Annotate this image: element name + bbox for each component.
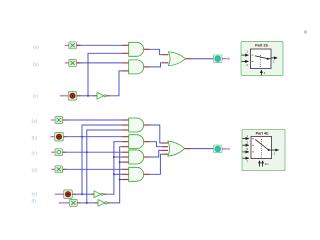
wire NOT1 to AND2.B — [110, 71, 122, 96]
logic state U2 — [69, 59, 77, 66]
svg-text:(d): (d) — [32, 168, 38, 173]
pin number P3 — [252, 158, 254, 160]
not gate NOT3 — [98, 200, 107, 207]
wire OR2 to probe LP2 — [191, 148, 214, 150]
junction node J7 — [119, 161, 121, 163]
svg-text:(b): (b) — [33, 62, 39, 67]
wire U8 to AND6.A — [67, 168, 123, 170]
pin U8 out — [63, 168, 67, 170]
wire NOT3 to AND4.C bus — [111, 147, 122, 203]
pin NOT1 in — [94, 95, 97, 97]
pin U2 out — [77, 62, 81, 64]
pin AND4.C — [122, 146, 129, 148]
watermark dot — [304, 30, 307, 33]
wire U2 to AND2.A — [77, 62, 123, 64]
logic state U5 — [55, 117, 63, 124]
logic state U10 — [70, 199, 78, 206]
pin AND2.A — [122, 62, 129, 64]
wire AND1 to OR1.A — [150, 49, 162, 54]
wire AND6 to OR2.D — [150, 154, 162, 174]
junction node J3 — [86, 202, 88, 204]
junction node J5 — [113, 156, 115, 158]
wiper pivot dot — [268, 149, 270, 151]
pin U9 out — [72, 193, 76, 195]
pin 1 wire — [243, 138, 249, 140]
pin 5 wire — [243, 151, 249, 153]
switch contacts dashed line — [259, 55, 261, 68]
logic probe LP1 — [214, 55, 223, 63]
pin NOT3 out — [107, 202, 110, 204]
junction node J4 — [113, 173, 115, 175]
svg-text:(a): (a) — [33, 44, 39, 49]
wire AND5 to OR2.C — [150, 150, 162, 157]
wire AND4 to OR2.B — [150, 142, 162, 147]
logic state U8 pin stub — [51, 168, 55, 170]
inner switch box U11 — [251, 137, 272, 159]
pin OR2.C — [162, 149, 168, 151]
button U9 — [64, 190, 73, 199]
button U9 pin stub — [55, 193, 64, 195]
wire J4 to AND6.B — [114, 173, 122, 175]
pin U1 out — [77, 44, 81, 46]
button U6 pin stub — [51, 136, 55, 138]
svg-text:Dn: Dn — [265, 162, 269, 166]
and gate AND5 — [129, 150, 144, 164]
pin AND3.A — [122, 119, 129, 121]
logic state U7 — [55, 149, 63, 156]
pin 8 wire bottom — [259, 163, 261, 167]
wire J7 to AND5.C — [120, 161, 122, 163]
pin 7 wire — [243, 157, 249, 159]
pin OR2.D — [162, 153, 168, 155]
pin AND5.B — [122, 156, 129, 158]
wire NOT2 to AND4.B bus — [107, 142, 122, 195]
wire J2 up to AND3.B — [82, 125, 122, 194]
junction node J2 — [81, 193, 83, 195]
button U3 — [68, 92, 77, 101]
pin U7 out — [63, 151, 67, 153]
logic state U2 pin stub — [65, 62, 69, 64]
and gate AND6 — [129, 167, 144, 181]
wire J3 up to AND3.C — [87, 130, 122, 203]
pin 8 arrow — [258, 160, 261, 163]
pin number P0 — [252, 138, 254, 140]
pin AND3 out — [144, 124, 150, 126]
pin OR2.B — [162, 146, 168, 148]
not gate NOT1 — [97, 92, 106, 99]
pin AND6.A — [122, 168, 129, 170]
pin AND2 out — [144, 66, 150, 68]
not gate NOT2 — [94, 191, 103, 198]
pin 9 arrow — [261, 160, 264, 163]
pin end dot LP2 — [227, 148, 230, 151]
pin 4 wire bottom — [260, 73, 262, 76]
pin OR1.A — [162, 54, 168, 56]
pin NOT1 out — [106, 95, 110, 97]
pin 4 arrow — [260, 70, 263, 74]
and gate AND3 — [129, 118, 144, 132]
switch wiper — [255, 56, 271, 59]
and gate AND1 — [129, 42, 144, 56]
svg-text:(c): (c) — [33, 94, 39, 99]
or gate OR1 — [168, 52, 185, 66]
wire J6 to AND6.C — [120, 179, 122, 181]
wire AND2 to OR1.B — [150, 63, 162, 67]
wire AND3 to OR2.A — [150, 125, 162, 143]
button U3 pin stub — [60, 95, 68, 97]
pin U5 out — [63, 119, 67, 121]
wire OR1 to probe LP1 — [192, 58, 214, 60]
switch wiper — [255, 140, 271, 151]
logic state U7 pin stub — [51, 151, 55, 153]
pin AND4.A — [122, 136, 129, 138]
wire U9 to NOT2 — [76, 193, 91, 195]
wire U7 to AND5.A — [67, 151, 123, 153]
pin NOT2 out — [103, 193, 106, 195]
wiper pivot dot — [267, 58, 269, 60]
pin end dot LP1 — [227, 57, 230, 60]
junction node J6 — [119, 179, 121, 181]
wire U3 to NOT1 — [81, 95, 94, 97]
pin U3 out — [77, 95, 81, 97]
svg-text:(b): (b) — [32, 135, 38, 140]
svg-text:Part 4b: Part 4b — [256, 132, 270, 136]
pin AND1.B — [122, 52, 129, 54]
or gate OR2 — [168, 141, 185, 156]
junction node J3c — [86, 151, 88, 153]
pin number D0 — [252, 54, 254, 56]
junction node J2b — [81, 136, 83, 138]
pin AND6 out — [144, 173, 150, 175]
subcircuit box Part 2b — [241, 42, 283, 76]
pin 2 wire — [272, 149, 279, 151]
logic state U8 — [55, 166, 63, 173]
pin AND4.B — [122, 141, 129, 143]
pin 2 wire — [271, 57, 277, 59]
pin AND2.B — [122, 70, 129, 72]
wire U6 to AND4.A — [67, 136, 122, 138]
pin AND1.A — [122, 44, 129, 46]
pin AND3.C — [122, 129, 129, 131]
logic state U1 — [69, 42, 77, 49]
pin NOT3 in — [95, 202, 98, 204]
svg-text:(f): (f) — [32, 199, 37, 204]
pin OR2 out — [185, 148, 191, 150]
wire U10 to NOT3 — [81, 202, 95, 204]
pin AND5.C — [122, 161, 129, 163]
pin 9 wire bottom — [262, 163, 264, 167]
pin number D1 — [252, 60, 254, 62]
pin U6 out — [63, 136, 67, 138]
pin AND6.B — [122, 173, 129, 175]
pin 1 wire — [242, 54, 249, 56]
svg-text:(c): (c) — [32, 151, 38, 156]
pin AND5 out — [144, 156, 150, 158]
wire J1 up to AND1.B — [88, 53, 122, 96]
pin number P2 — [252, 151, 254, 153]
pin AND4 out — [144, 141, 150, 143]
pin 3 wire — [243, 144, 249, 146]
logic state U10 pin stub — [59, 202, 69, 204]
pin OR1.B — [162, 62, 168, 64]
svg-text:(a): (a) — [32, 119, 38, 124]
button U6 — [55, 132, 64, 141]
pin AND5.A — [122, 151, 129, 153]
wire U5 to AND3.A — [67, 119, 123, 121]
pin AND6.C — [122, 179, 129, 181]
and gate AND2 — [129, 60, 144, 74]
pin NOT2 in — [91, 193, 94, 195]
and gate AND4 — [129, 135, 144, 149]
pin OR1 out — [186, 58, 192, 60]
inner switch box U4 — [251, 49, 272, 69]
pin AND1 out — [144, 48, 150, 50]
pin LP1 right stub — [222, 58, 227, 60]
pin U10 out — [77, 202, 81, 204]
svg-text:(e): (e) — [32, 191, 38, 196]
switch contacts dashed line — [261, 139, 263, 158]
pin OR2.A — [162, 142, 168, 144]
logic state U5 pin stub — [51, 119, 55, 121]
logic state U1 pin stub — [65, 44, 69, 46]
pin number P1 — [252, 144, 254, 146]
junction node J1 — [87, 95, 89, 97]
pin AND3.B — [122, 124, 129, 126]
subcircuit box Part 4b — [242, 129, 285, 170]
wire J5 to AND5.B — [114, 156, 122, 158]
wire U1 to AND1.A — [77, 44, 123, 46]
svg-text:Part 2b: Part 2b — [255, 44, 269, 48]
logic probe LP2 — [214, 145, 223, 153]
pin 3 wire — [242, 60, 249, 62]
pin LP2 right stub — [222, 148, 227, 150]
